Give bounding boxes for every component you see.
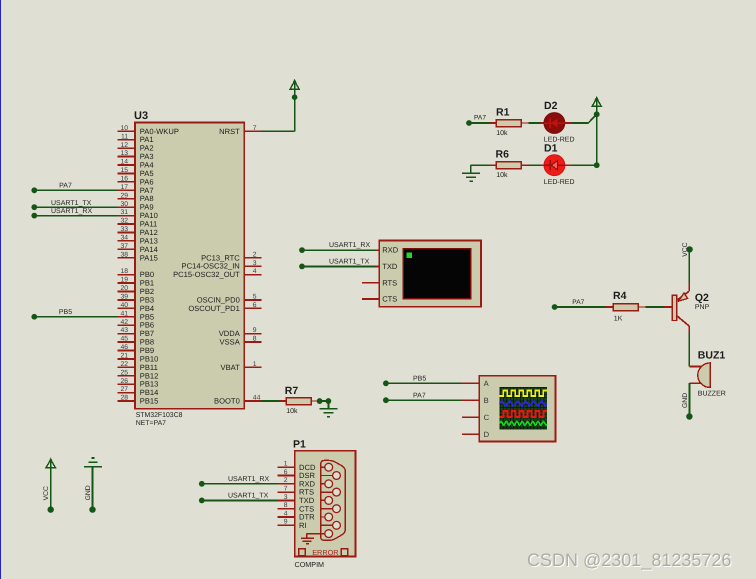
value BUZZER (BUZ1) bbox=[698, 391, 726, 398]
pin 33 (PA12) bbox=[118, 226, 158, 237]
node USART1_RX terminal bbox=[31, 213, 37, 219]
svg-text:RI: RI bbox=[299, 521, 307, 530]
svg-text:5: 5 bbox=[253, 294, 257, 301]
VT1 pin RXD bbox=[362, 246, 399, 255]
wire PB5 to pin41 bbox=[34, 316, 117, 318]
pin 20 (PB2) bbox=[118, 285, 154, 296]
svg-text:4: 4 bbox=[284, 510, 288, 517]
wire buzzer to GND bbox=[688, 383, 690, 416]
svg-text:38: 38 bbox=[120, 251, 128, 258]
label R4 bbox=[613, 290, 627, 302]
pin 25 (PB12) bbox=[118, 369, 159, 380]
ground terminal GND (BUZ1) bbox=[686, 413, 692, 419]
P1 pin 2 (RXD) bbox=[278, 477, 316, 488]
svg-text:29: 29 bbox=[120, 192, 128, 199]
svg-text:3: 3 bbox=[284, 494, 288, 501]
svg-text:STM32F103C8: STM32F103C8 bbox=[136, 412, 183, 419]
svg-text:16: 16 bbox=[120, 175, 128, 182]
wire NRST horizontal bbox=[262, 130, 295, 132]
sheet border line bbox=[0, 0, 2, 579]
svg-text:PB5: PB5 bbox=[413, 376, 426, 383]
node USART1_TX terminal (VT) bbox=[299, 264, 305, 270]
node PA7 terminal bbox=[31, 187, 37, 193]
label USART1_RX (P1) bbox=[228, 476, 269, 483]
svg-text:OSCOUT_PD1: OSCOUT_PD1 bbox=[188, 304, 239, 313]
power terminal VCC (Q2) bbox=[686, 246, 692, 252]
pin 1 (VBAT) bbox=[221, 361, 262, 372]
pin 14 (PA4) bbox=[118, 159, 154, 170]
svg-text:9: 9 bbox=[284, 519, 288, 526]
pin 9 (VDDA) bbox=[219, 327, 262, 338]
pin 7 (NRST) bbox=[219, 125, 261, 136]
scope trace C (red) bbox=[500, 411, 547, 417]
wire USART1_TX to P1 TXD bbox=[202, 499, 278, 501]
svg-text:1: 1 bbox=[253, 361, 257, 368]
svg-text:18: 18 bbox=[120, 268, 128, 275]
svg-text:20: 20 bbox=[120, 285, 128, 292]
label USART1_TX bbox=[51, 200, 92, 207]
pin 13 (PA3) bbox=[118, 150, 154, 161]
pin 10 (PA0-WKUP) bbox=[118, 125, 179, 136]
label BUZ1 bbox=[698, 350, 726, 362]
wire USART1_RX to VT RXD bbox=[302, 249, 376, 251]
P1 pin 4 (DTR) bbox=[278, 510, 316, 521]
svg-text:USART1_TX: USART1_TX bbox=[228, 493, 269, 500]
svg-text:USART1_TX: USART1_TX bbox=[51, 200, 92, 207]
value 1K (R4) bbox=[614, 315, 623, 322]
svg-text:D2: D2 bbox=[544, 100, 558, 112]
svg-text:PA7: PA7 bbox=[413, 392, 426, 399]
svg-text:NET=PA7: NET=PA7 bbox=[136, 420, 166, 427]
svg-text:PA7: PA7 bbox=[59, 183, 72, 190]
wire D2 to power rail bbox=[572, 114, 597, 123]
svg-text:8: 8 bbox=[253, 336, 257, 343]
svg-text:13: 13 bbox=[120, 150, 128, 157]
node R1 input terminal bbox=[466, 120, 472, 126]
svg-text:Q2: Q2 bbox=[695, 292, 709, 304]
node power rail junction (top) bbox=[594, 111, 600, 117]
svg-text:BUZ1: BUZ1 bbox=[698, 350, 726, 362]
node power rail junction (bottom) bbox=[594, 162, 600, 168]
svg-text:USART1_TX: USART1_TX bbox=[329, 258, 370, 265]
svg-text:17: 17 bbox=[120, 184, 128, 191]
CSDN watermark bbox=[527, 550, 731, 570]
svg-text:RXD: RXD bbox=[382, 246, 399, 255]
node PB5 terminal bbox=[31, 314, 37, 320]
node R7 output bbox=[317, 398, 323, 404]
svg-text:U3: U3 bbox=[134, 110, 148, 122]
pin 2 (PC13_RTC) bbox=[201, 251, 261, 262]
power terminal (LED rail) bbox=[592, 96, 601, 117]
pin 29 (PA8) bbox=[118, 192, 154, 203]
pin 5 (OSCIN_PD0) bbox=[197, 294, 262, 305]
P1 pin 7 (RTS) bbox=[278, 486, 315, 497]
label USART1_RX (VT) bbox=[329, 242, 370, 249]
resistor R4 bbox=[606, 304, 646, 311]
U3 value label STM32F103C8 bbox=[136, 412, 183, 419]
svg-text:USART1_RX: USART1_RX bbox=[51, 208, 92, 215]
node USART1_RX terminal (VT) bbox=[299, 247, 305, 253]
svg-text:2: 2 bbox=[284, 477, 288, 484]
value COMPIM (P1) bbox=[295, 560, 325, 569]
svg-text:GND: GND bbox=[682, 393, 689, 408]
svg-text:R6: R6 bbox=[496, 149, 510, 161]
svg-text:R1: R1 bbox=[496, 106, 510, 118]
svg-text:D1: D1 bbox=[544, 142, 558, 154]
pin 41 (PB5) bbox=[118, 310, 154, 321]
pin 19 (PB1) bbox=[118, 277, 154, 288]
svg-text:6: 6 bbox=[253, 302, 257, 309]
svg-text:43: 43 bbox=[120, 327, 128, 334]
scope trace B (blue) bbox=[500, 401, 547, 407]
resistor R7 bbox=[279, 398, 319, 405]
svg-text:1: 1 bbox=[284, 461, 288, 468]
label VCC (bottom-left) bbox=[43, 486, 50, 500]
wire R1 to D2 bbox=[529, 122, 545, 124]
pin 38 (PA15) bbox=[118, 251, 158, 262]
transistor Q2 (PNP) bbox=[663, 283, 689, 333]
resistor R1 bbox=[489, 120, 529, 127]
svg-text:BOOT0: BOOT0 bbox=[214, 397, 240, 406]
pin 26 (PB13) bbox=[118, 378, 159, 389]
svg-text:19: 19 bbox=[120, 277, 128, 284]
svg-text:P1: P1 bbox=[293, 439, 306, 451]
P1 pin 1 (DCD) bbox=[278, 461, 316, 472]
pin 16 (PA6) bbox=[118, 175, 154, 186]
U3 net label NET=PA7 bbox=[136, 420, 166, 427]
svg-text:10k: 10k bbox=[286, 407, 298, 415]
svg-text:31: 31 bbox=[120, 209, 128, 216]
IC U3 STM32F103C8 microcontroller body bbox=[134, 110, 244, 409]
label PA7 (R4 net) bbox=[572, 299, 584, 306]
svg-text:USART1_RX: USART1_RX bbox=[329, 242, 370, 249]
svg-text:40: 40 bbox=[120, 302, 128, 309]
P1 pin 6 (DSR) bbox=[278, 469, 316, 480]
wire Q2 emitter to VCC bbox=[688, 252, 690, 283]
svg-text:1K: 1K bbox=[614, 315, 623, 322]
pin 6 (OSCOUT_PD1) bbox=[188, 302, 261, 313]
wire USART1_TX to pin30 bbox=[34, 206, 117, 208]
svg-text:32: 32 bbox=[120, 218, 128, 225]
label USART1_TX (VT) bbox=[329, 258, 370, 265]
svg-text:VSSA: VSSA bbox=[220, 338, 241, 347]
wire USART1_TX to VT TXD bbox=[302, 265, 376, 267]
VT1 pin TXD bbox=[362, 262, 398, 271]
pin 46 (PB9) bbox=[118, 344, 154, 355]
svg-text:41: 41 bbox=[120, 310, 128, 317]
label R1 bbox=[496, 106, 510, 118]
scope pin C bbox=[462, 413, 490, 422]
P1 pin 9 (RI) bbox=[278, 519, 307, 530]
ground (P1 shell) bbox=[301, 534, 321, 544]
svg-text:PC15-OSC32_OUT: PC15-OSC32_OUT bbox=[173, 270, 240, 279]
LED D1 (on) bbox=[540, 155, 571, 176]
pin 12 (PA2) bbox=[118, 142, 154, 153]
pin 3 (PC14-OSC32_IN) bbox=[182, 260, 262, 271]
label D1 bbox=[544, 142, 558, 154]
pin 22 (PB11) bbox=[118, 361, 158, 372]
svg-text:COMPIM: COMPIM bbox=[295, 560, 325, 569]
scope trace A (yellow) bbox=[500, 391, 547, 396]
LED D2 (off) bbox=[540, 113, 571, 134]
label USART1_TX (P1) bbox=[228, 493, 269, 500]
pin 44 (BOOT0) bbox=[214, 395, 261, 406]
node USART1_TX terminal (P1) bbox=[199, 498, 205, 504]
ground terminal GND (bottom-left) bbox=[84, 458, 102, 513]
node PA7 terminal (scope) bbox=[383, 397, 389, 403]
power terminal (NRST) bbox=[290, 79, 299, 100]
value LED-RED (D2) bbox=[544, 137, 575, 144]
svg-text:VCC: VCC bbox=[682, 242, 689, 256]
svg-text:PA15: PA15 bbox=[140, 253, 158, 262]
wire PA7 to pin17 bbox=[34, 189, 117, 191]
svg-text:VBAT: VBAT bbox=[221, 363, 241, 372]
pin 17 (PA7) bbox=[118, 184, 154, 195]
P1 pin 3 (TXD) bbox=[278, 494, 315, 505]
svg-text:7: 7 bbox=[284, 486, 288, 493]
label PB5 bbox=[59, 309, 72, 316]
value 10k (R7) bbox=[286, 407, 298, 415]
wire R6 to D1 bbox=[529, 164, 545, 166]
svg-text:PB5: PB5 bbox=[59, 309, 72, 316]
svg-text:21: 21 bbox=[120, 353, 128, 360]
pin 32 (PA11) bbox=[118, 218, 158, 229]
wire Q2 collector to buzzer bbox=[688, 333, 690, 367]
svg-text:CTS: CTS bbox=[382, 295, 397, 304]
svg-text:PB15: PB15 bbox=[140, 397, 159, 406]
pin 18 (PB0) bbox=[118, 268, 154, 279]
svg-text:33: 33 bbox=[120, 226, 128, 233]
wire BOOT0 to R7 bbox=[262, 400, 279, 402]
power terminal VCC (bottom-left) bbox=[46, 458, 55, 513]
wire power rail vertical bbox=[596, 114, 598, 165]
pin 21 (PB10) bbox=[118, 353, 159, 364]
svg-text:34: 34 bbox=[120, 234, 128, 241]
svg-text:USART1_RX: USART1_RX bbox=[228, 476, 269, 483]
label PA7 (scope) bbox=[413, 392, 426, 399]
pin 39 (PB3) bbox=[118, 294, 154, 305]
svg-text:BUZZER: BUZZER bbox=[698, 391, 726, 398]
wire PA7 to R1 bbox=[469, 122, 490, 124]
ground (R6) bbox=[462, 165, 480, 181]
P1 ERROR indicator bbox=[299, 548, 348, 557]
scope pin A bbox=[462, 379, 490, 388]
svg-text:PA7: PA7 bbox=[474, 115, 486, 122]
scope pin D bbox=[462, 430, 490, 439]
value PNP (Q2) bbox=[695, 304, 710, 311]
svg-text:10: 10 bbox=[120, 125, 128, 132]
label R7 bbox=[285, 385, 299, 397]
svg-text:4: 4 bbox=[253, 268, 257, 275]
node PA7 terminal (R4) bbox=[552, 304, 558, 310]
svg-text:NRST: NRST bbox=[219, 127, 240, 136]
svg-text:22: 22 bbox=[120, 361, 128, 368]
label PA7 (R1 net) bbox=[474, 115, 486, 122]
wire R7 to ground bbox=[320, 400, 329, 402]
buzzer BUZ1 bbox=[689, 363, 710, 388]
label VCC (Q2) bbox=[682, 242, 689, 256]
label GND (BUZ1) bbox=[682, 393, 689, 408]
wire D1 to power rail bbox=[572, 164, 597, 166]
pin 31 (PA10) bbox=[118, 209, 158, 220]
pin 34 (PA13) bbox=[118, 234, 158, 245]
svg-text:2: 2 bbox=[253, 251, 257, 258]
pin 8 (VSSA) bbox=[220, 336, 262, 347]
wire R4 to Q2 base bbox=[645, 306, 663, 308]
label USART1_RX bbox=[51, 208, 92, 215]
svg-text:7: 7 bbox=[253, 125, 257, 132]
P1 pin 8 (CTS) bbox=[278, 502, 315, 513]
pin 40 (PB4) bbox=[118, 302, 154, 313]
svg-text:12: 12 bbox=[120, 142, 128, 149]
svg-text:45: 45 bbox=[120, 336, 128, 343]
svg-text:D: D bbox=[484, 430, 490, 439]
svg-text:39: 39 bbox=[120, 294, 128, 301]
pin 11 (PA1) bbox=[118, 133, 154, 144]
svg-text:27: 27 bbox=[120, 386, 128, 393]
label R6 bbox=[496, 149, 510, 161]
svg-text:CSDN @2301_81235726: CSDN @2301_81235726 bbox=[527, 550, 731, 570]
resistor R6 bbox=[489, 162, 529, 169]
svg-text:15: 15 bbox=[120, 167, 128, 174]
node ground terminal (R7) bbox=[326, 398, 332, 404]
svg-text:3: 3 bbox=[253, 260, 257, 267]
svg-text:26: 26 bbox=[120, 378, 128, 385]
label Q2 bbox=[695, 292, 709, 304]
svg-text:9: 9 bbox=[253, 327, 257, 334]
node USART1_TX terminal bbox=[31, 204, 37, 210]
wire PA7 to R4 bbox=[555, 306, 606, 308]
scope trace D (green) bbox=[500, 421, 547, 425]
svg-text:LED-RED: LED-RED bbox=[544, 179, 575, 186]
value 10k (R6) bbox=[496, 171, 508, 179]
svg-text:25: 25 bbox=[120, 369, 128, 376]
pin 43 (PB7) bbox=[118, 327, 154, 338]
label GND (bottom-left) bbox=[85, 485, 92, 500]
svg-text:GND: GND bbox=[85, 485, 92, 500]
svg-text:10k: 10k bbox=[496, 171, 508, 179]
ground (R7) bbox=[320, 401, 338, 417]
pin 15 (PA5) bbox=[118, 167, 154, 178]
VT1 pin CTS bbox=[362, 295, 397, 304]
svg-text:28: 28 bbox=[120, 395, 128, 402]
svg-text:30: 30 bbox=[120, 201, 128, 208]
pin 28 (PB15) bbox=[118, 395, 159, 406]
pin 37 (PA14) bbox=[118, 243, 158, 254]
VT1 pin RTS bbox=[362, 278, 397, 287]
svg-text:14: 14 bbox=[120, 159, 128, 166]
connector P1 body bbox=[293, 439, 356, 557]
pin 4 (PC15-OSC32_OUT) bbox=[173, 268, 261, 279]
value LED-RED (D1) bbox=[544, 179, 575, 186]
oscilloscope body bbox=[479, 376, 555, 442]
pin 27 (PB14) bbox=[118, 386, 159, 397]
wire ground to R6 bbox=[471, 164, 490, 166]
virtual terminal VT1 body bbox=[379, 241, 481, 307]
svg-text:37: 37 bbox=[120, 243, 128, 250]
svg-text:RTS: RTS bbox=[382, 278, 397, 287]
svg-text:46: 46 bbox=[120, 344, 128, 351]
label PA7 bbox=[59, 183, 72, 190]
label D2 bbox=[544, 100, 558, 112]
pin 42 (PB6) bbox=[118, 319, 154, 330]
svg-text:PA7: PA7 bbox=[572, 299, 584, 306]
value 10k (R1) bbox=[496, 129, 508, 137]
svg-text:ERROR: ERROR bbox=[312, 548, 338, 557]
wire USART1_RX to pin31 bbox=[34, 215, 117, 217]
pin 45 (PB8) bbox=[118, 336, 154, 347]
svg-text:10k: 10k bbox=[496, 129, 508, 137]
label PB5 (scope) bbox=[413, 376, 426, 383]
wire PA7 to scope B bbox=[386, 399, 462, 401]
svg-text:R4: R4 bbox=[613, 290, 627, 302]
wire USART1_RX to P1 RXD bbox=[202, 483, 278, 485]
svg-text:6: 6 bbox=[284, 469, 288, 476]
svg-text:11: 11 bbox=[121, 133, 128, 140]
scope pin B bbox=[462, 396, 489, 405]
node PB5 terminal (scope) bbox=[383, 380, 389, 386]
pin 30 (PA9) bbox=[118, 201, 154, 212]
svg-text:8: 8 bbox=[284, 502, 288, 509]
svg-text:VCC: VCC bbox=[43, 486, 50, 500]
wire NRST vertical bbox=[294, 97, 296, 131]
P1 DB9 connector drawing bbox=[321, 460, 346, 540]
svg-text:B: B bbox=[484, 396, 489, 405]
svg-text:44: 44 bbox=[253, 395, 261, 402]
svg-text:42: 42 bbox=[120, 319, 128, 326]
wire PB5 to scope A bbox=[386, 382, 462, 384]
svg-text:TXD: TXD bbox=[382, 262, 398, 271]
svg-text:R7: R7 bbox=[285, 385, 299, 397]
svg-text:C: C bbox=[484, 413, 490, 422]
svg-text:PNP: PNP bbox=[695, 304, 710, 311]
node USART1_RX terminal (P1) bbox=[199, 481, 205, 487]
